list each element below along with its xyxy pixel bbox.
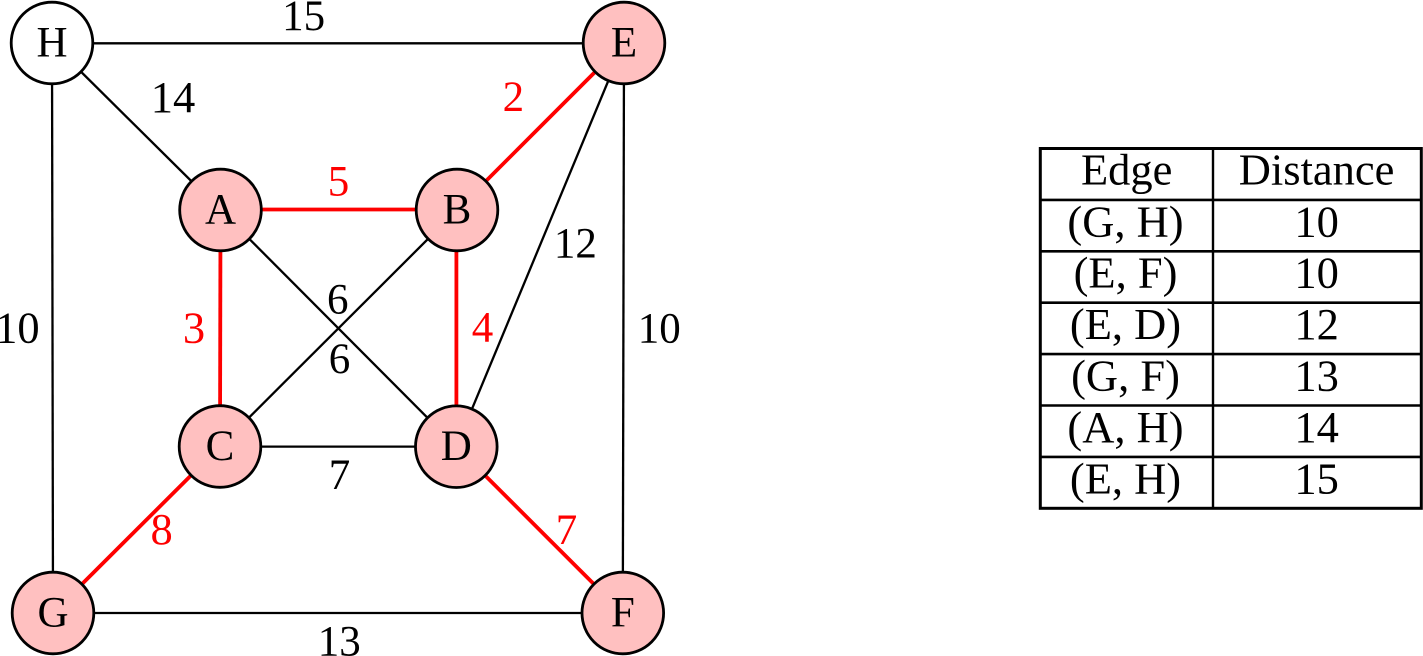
svg-text:4: 4 — [472, 305, 494, 352]
svg-text:10: 10 — [1294, 248, 1339, 298]
svg-text:(E, F): (E, F) — [1074, 248, 1178, 298]
svg-text:A: A — [205, 186, 236, 233]
wire edge G-F weight 13 — [53, 612, 623, 614]
table frame — [1040, 149, 1421, 509]
svg-text:F: F — [611, 589, 635, 636]
svg-text:13: 13 — [318, 619, 361, 656]
node D — [416, 406, 498, 488]
svg-text:H: H — [36, 19, 67, 66]
svg-text:13: 13 — [1294, 351, 1339, 401]
svg-text:6: 6 — [329, 336, 351, 383]
node G — [12, 572, 94, 654]
svg-text:10: 10 — [638, 306, 681, 353]
wire edge B-C weight 6 — [220, 210, 457, 447]
svg-text:G: G — [37, 589, 68, 636]
svg-text:6: 6 — [327, 277, 349, 324]
svg-text:(G, H): (G, H) — [1067, 196, 1183, 246]
svg-text:2: 2 — [503, 74, 525, 121]
wire edge H-A weight 14 — [52, 43, 221, 210]
svg-text:Edge: Edge — [1081, 144, 1172, 194]
svg-text:E: E — [611, 19, 637, 66]
wire red edge B-D weight 4 — [454, 210, 458, 447]
node C — [179, 406, 261, 488]
svg-text:B: B — [443, 186, 472, 233]
svg-text:12: 12 — [554, 221, 597, 268]
svg-text:14: 14 — [1294, 402, 1339, 452]
wire red edge A-C weight 3 — [218, 210, 222, 447]
wire edge H-E weight 15 — [52, 42, 624, 44]
svg-text:10: 10 — [1294, 196, 1339, 246]
node E — [583, 2, 665, 84]
svg-text:12: 12 — [1294, 299, 1339, 349]
node B — [416, 169, 498, 251]
svg-text:(E, D): (E, D) — [1070, 299, 1181, 349]
svg-text:8: 8 — [150, 504, 172, 554]
svg-text:5: 5 — [328, 159, 350, 206]
wire red edge E-B weight 2 — [457, 43, 624, 210]
wire red edge C-G weight 8 — [53, 447, 220, 614]
wire edge A-D weight 6 — [221, 210, 457, 447]
svg-text:15: 15 — [282, 0, 325, 40]
svg-text:15: 15 — [1294, 453, 1339, 503]
svg-text:C: C — [206, 423, 235, 470]
node H — [11, 2, 93, 84]
node A — [180, 169, 262, 251]
svg-text:14: 14 — [151, 72, 196, 122]
svg-text:(G, F): (G, F) — [1071, 351, 1180, 401]
wire red edge A-B weight 5 — [221, 208, 458, 212]
svg-text:(A, H): (A, H) — [1067, 402, 1183, 452]
svg-text:3: 3 — [183, 303, 205, 353]
svg-text:Distance: Distance — [1239, 144, 1395, 194]
wire edge C-D weight 7 — [220, 445, 456, 447]
wire edge E-F weight 10 — [623, 43, 624, 613]
svg-text:10: 10 — [0, 303, 40, 353]
wire edge H-G weight 10 — [52, 43, 53, 613]
svg-text:(E, H): (E, H) — [1070, 453, 1181, 503]
svg-text:7: 7 — [556, 507, 578, 554]
wire edge E-D weight 12 — [456, 43, 624, 447]
node F — [582, 572, 664, 654]
svg-text:7: 7 — [329, 452, 351, 499]
wire red edge D-F weight 7 — [456, 447, 623, 613]
svg-text:D: D — [441, 423, 472, 470]
